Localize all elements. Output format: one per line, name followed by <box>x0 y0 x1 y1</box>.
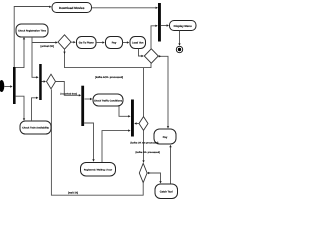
wire bar1 to Download Movies <box>14 7 50 68</box>
fork bar2 <box>39 64 42 100</box>
wire decision1 down to kafka junction rail <box>65 49 152 67</box>
wire decision5 to bar3, label no arrival time <box>56 82 81 96</box>
decision1 <box>58 35 71 49</box>
decision5 <box>47 74 56 89</box>
svg-text:[arrival OK]: [arrival OK] <box>41 45 55 48</box>
svg-text:Catch Taxi: Catch Taxi <box>160 190 173 193</box>
activity Check Train Availability <box>20 121 51 134</box>
join bar5 <box>158 3 161 42</box>
wire decision4 to Pay and Catch Taxi rail <box>147 173 160 182</box>
wire bar3 to Registered Waiting <box>84 123 94 161</box>
wire Check Registration Time to decision1, label arrival OK <box>32 42 57 44</box>
svg-text:Download Movies: Download Movies <box>59 6 85 10</box>
wire bar3 to Check Traffic Conditions <box>85 98 92 100</box>
wire Load Van to decision2 <box>139 49 143 57</box>
svg-text:Go To Plane: Go To Plane <box>79 42 94 45</box>
wire decision2 up to join bar5 <box>151 26 157 49</box>
activity Check Registration Time <box>16 24 48 37</box>
final node <box>176 46 182 52</box>
svg-text:Check Traffic Conditions: Check Traffic Conditions <box>94 99 122 102</box>
wire Check Registration Time to bar2 <box>32 37 37 77</box>
wire bar2 to decision5 <box>41 81 45 83</box>
activity Pay top <box>106 37 123 49</box>
wire bar1 to Check Registration Time <box>16 39 24 68</box>
wire initial to fork1 <box>4 86 11 88</box>
svg-text:Pay: Pay <box>163 136 168 139</box>
wire Check Train Availability to bar2 <box>32 98 38 121</box>
wire Registered Waiting to bar4 <box>102 131 129 163</box>
wire decision1 to Go To Plane <box>71 41 75 43</box>
activity Display Menu <box>170 21 197 31</box>
activity Load Van <box>130 37 146 49</box>
initial node <box>0 80 4 92</box>
wire kafka rail down to decision3 <box>143 68 145 117</box>
wire bar1 to Check Train Availability <box>16 96 24 119</box>
svg-text:Registered / Waiting 1 hour: Registered / Waiting 1 hour <box>84 168 112 171</box>
svg-text:Pay: Pay <box>112 42 117 45</box>
svg-text:Load Van: Load Van <box>132 42 144 45</box>
svg-text:[kafka OK not processed]: [kafka OK not processed] <box>131 142 159 145</box>
wire Go To Plane to Pay <box>96 42 104 44</box>
wire loop decision4 back to decision5 <box>51 89 143 195</box>
svg-text:[kafka OK- processed]: [kafka OK- processed] <box>136 151 161 154</box>
svg-text:Display Menu: Display Menu <box>174 24 192 28</box>
wire bar5 to Display Menu <box>161 25 168 27</box>
wire decision3 to join bar4 <box>135 123 139 125</box>
wire Download Movies to join bar5 <box>92 7 157 9</box>
wire decision3 down to decision4 <box>143 130 145 161</box>
activity Catch Taxi <box>155 184 178 199</box>
activity Registered Waiting 1 hour <box>81 163 116 177</box>
decision4 <box>139 163 147 182</box>
svg-text:[kafka ACK- processed]: [kafka ACK- processed] <box>95 76 123 79</box>
wire Pay to Load Van <box>123 42 129 44</box>
activity Go To Plane <box>77 37 97 49</box>
activity Download Movies <box>52 3 92 13</box>
decision2 <box>144 49 158 63</box>
svg-text:[wait 1h]: [wait 1h] <box>68 191 78 194</box>
activity Check Traffic Conditions <box>93 94 123 106</box>
svg-text:[no arrival time]: [no arrival time] <box>61 92 78 95</box>
join bar4 <box>131 100 134 137</box>
svg-text:Check Registration Time: Check Registration Time <box>18 29 46 32</box>
wire decision2 to Pay right <box>158 56 168 127</box>
fork bar3 <box>81 86 84 126</box>
wire Check Traffic Conditions to bar4 <box>119 106 129 116</box>
activity Pay right <box>154 129 176 144</box>
svg-text:Check Train Availability: Check Train Availability <box>22 127 49 130</box>
decision3 <box>139 117 148 131</box>
wire Display Menu to final node <box>179 31 181 45</box>
fork bar1 <box>13 67 16 104</box>
